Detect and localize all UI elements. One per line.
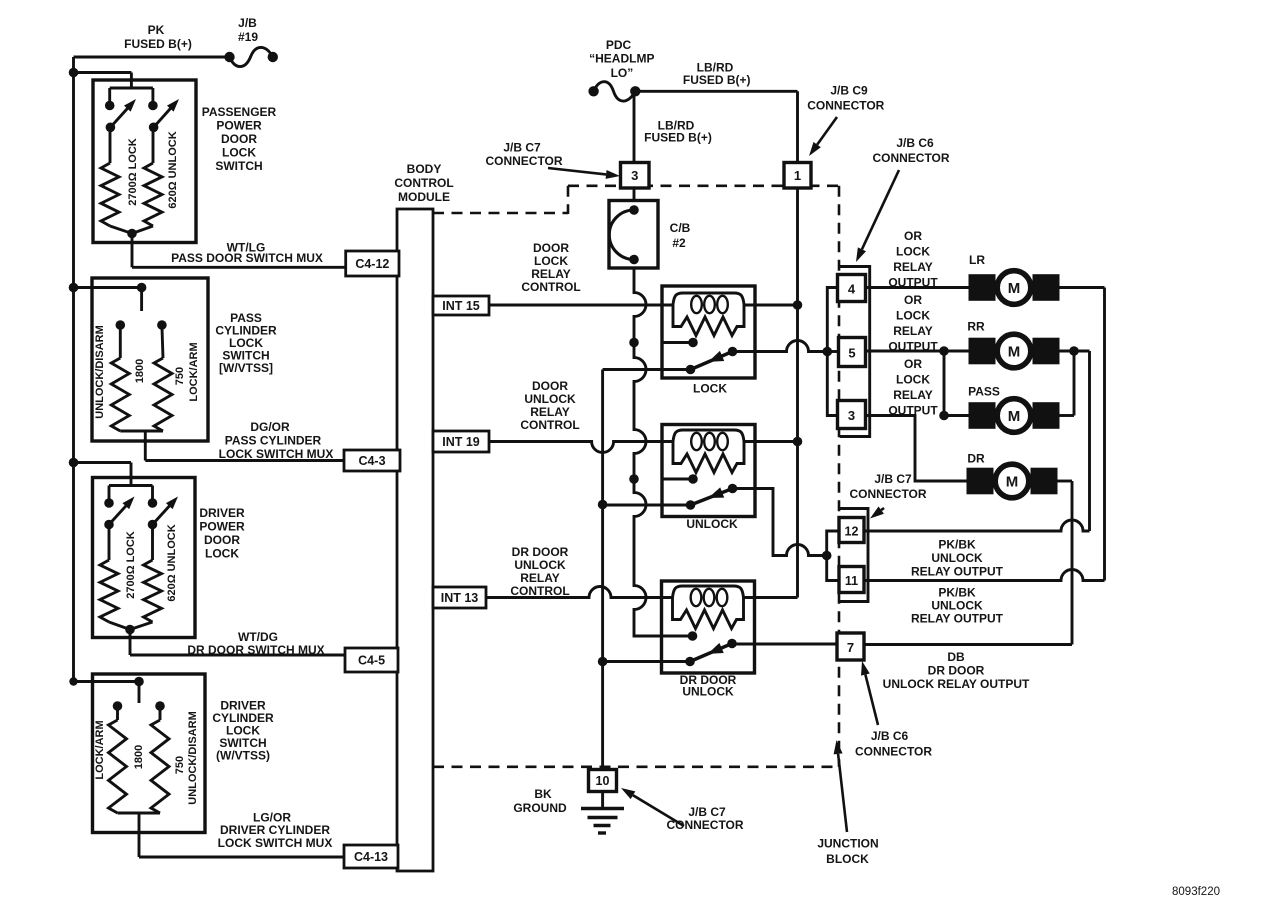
svg-text:INT 19: INT 19 [442,435,480,449]
svg-text:PASS DOOR SWITCH MUX: PASS DOOR SWITCH MUX [171,251,323,265]
svg-text:2700Ω LOCK: 2700Ω LOCK [127,138,139,206]
svg-text:12: 12 [845,525,859,539]
svg-text:CONTROL: CONTROL [520,418,579,432]
svg-text:2700Ω LOCK: 2700Ω LOCK [125,531,137,599]
svg-text:LOCK SWITCH MUX: LOCK SWITCH MUX [218,836,333,850]
svg-text:UNLOCK: UNLOCK [931,599,983,613]
svg-text:“HEADLMP: “HEADLMP [589,51,654,65]
svg-text:DRIVER: DRIVER [199,506,245,520]
svg-text:M: M [1006,474,1019,491]
svg-text:POWER: POWER [199,520,245,534]
svg-text:BLOCK: BLOCK [826,852,869,866]
svg-text:M: M [1008,280,1021,297]
svg-text:RELAY: RELAY [531,267,571,281]
svg-text:(W/VTSS): (W/VTSS) [216,749,270,763]
svg-text:RELAY OUTPUT: RELAY OUTPUT [911,565,1004,579]
svg-text:CONNECTOR: CONNECTOR [849,487,926,501]
svg-text:J/B C7: J/B C7 [688,805,726,819]
svg-text:OR: OR [904,229,922,243]
svg-text:1800: 1800 [134,359,146,383]
svg-text:C4-12: C4-12 [355,257,389,271]
svg-text:#19: #19 [238,30,258,44]
svg-text:CONTROL: CONTROL [394,176,453,190]
svg-text:J/B C6: J/B C6 [896,136,934,150]
svg-text:CONNECTOR: CONNECTOR [807,98,884,112]
svg-text:LOCK: LOCK [205,547,239,561]
svg-text:DR DOOR: DR DOOR [928,664,985,678]
svg-text:LR: LR [969,253,985,267]
svg-text:J/B C7: J/B C7 [503,141,541,155]
svg-text:RR: RR [967,320,985,334]
svg-text:UNLOCK: UNLOCK [514,558,566,572]
svg-text:UNLOCK: UNLOCK [524,392,576,406]
svg-text:JUNCTION: JUNCTION [817,837,878,851]
svg-text:BODY: BODY [407,162,442,176]
svg-text:CONTROL: CONTROL [510,584,569,598]
svg-text:OR: OR [904,293,922,307]
svg-text:C4-5: C4-5 [358,654,385,668]
svg-text:C4-13: C4-13 [354,850,388,864]
svg-text:LOCK: LOCK [896,245,930,259]
svg-text:620Ω UNLOCK: 620Ω UNLOCK [167,131,179,208]
svg-text:CONNECTOR: CONNECTOR [485,154,562,168]
svg-text:1: 1 [794,168,801,183]
svg-text:DB: DB [947,650,965,664]
svg-text:3: 3 [631,168,638,183]
svg-text:M: M [1008,344,1021,361]
svg-text:C/B: C/B [670,221,691,235]
svg-text:750: 750 [174,367,186,385]
svg-text:PK: PK [148,23,165,37]
svg-text:UNLOCK RELAY OUTPUT: UNLOCK RELAY OUTPUT [883,677,1030,691]
svg-text:UNLOCK: UNLOCK [931,551,983,565]
svg-text:620Ω UNLOCK: 620Ω UNLOCK [166,524,178,601]
svg-text:PK/BK: PK/BK [938,586,976,600]
svg-text:PDC: PDC [606,38,632,52]
svg-text:DRIVER CYLINDER: DRIVER CYLINDER [220,823,330,837]
svg-text:PK/BK: PK/BK [938,538,976,552]
svg-text:LOCK: LOCK [693,382,727,396]
svg-text:FUSED B(+): FUSED B(+) [683,73,751,87]
svg-text:C4-3: C4-3 [358,454,385,468]
svg-text:LOCK: LOCK [896,309,930,323]
svg-text:RELAY: RELAY [893,324,933,338]
svg-text:FUSED B(+): FUSED B(+) [124,37,192,51]
svg-text:[W/VTSS]: [W/VTSS] [219,361,273,375]
svg-text:LOCK: LOCK [896,373,930,387]
svg-text:RELAY: RELAY [530,405,570,419]
svg-text:LO”: LO” [611,66,634,80]
svg-text:INT 15: INT 15 [442,299,480,313]
svg-text:#2: #2 [672,236,686,250]
svg-text:DR: DR [967,452,985,466]
svg-text:CONNECTOR: CONNECTOR [666,818,743,832]
svg-text:J/B: J/B [238,16,257,30]
svg-text:M: M [1008,408,1021,425]
svg-text:LOCK SWITCH MUX: LOCK SWITCH MUX [219,447,334,461]
svg-text:RELAY: RELAY [893,260,933,274]
svg-text:GROUND: GROUND [513,801,567,815]
svg-text:RELAY: RELAY [520,571,560,585]
svg-text:OUTPUT: OUTPUT [888,340,938,354]
svg-text:OR: OR [904,357,922,371]
svg-text:10: 10 [596,774,610,788]
svg-text:UNLOCK/DISARM: UNLOCK/DISARM [94,325,106,419]
svg-text:750: 750 [174,756,186,774]
svg-text:UNLOCK: UNLOCK [686,517,738,531]
svg-text:4: 4 [848,282,856,297]
svg-text:1800: 1800 [133,745,145,769]
svg-text:MODULE: MODULE [398,190,450,204]
svg-text:FUSED B(+): FUSED B(+) [644,131,712,145]
svg-text:CONNECTOR: CONNECTOR [872,151,949,165]
svg-text:OUTPUT: OUTPUT [888,404,938,418]
svg-text:LOCK: LOCK [222,146,256,160]
svg-text:8093f220: 8093f220 [1172,886,1220,898]
svg-text:J/B C9: J/B C9 [830,84,868,98]
svg-text:DR DOOR SWITCH MUX: DR DOOR SWITCH MUX [187,643,324,657]
svg-text:PASS CYLINDER: PASS CYLINDER [225,434,322,448]
svg-text:LOCK: LOCK [534,254,568,268]
svg-text:J/B C7: J/B C7 [874,472,912,486]
svg-text:LOCK/ARM: LOCK/ARM [188,342,200,401]
svg-text:DOOR: DOOR [532,379,568,393]
svg-text:3: 3 [848,408,855,423]
svg-text:BK: BK [534,787,552,801]
svg-text:UNLOCK/DISARM: UNLOCK/DISARM [187,711,199,805]
svg-text:5: 5 [848,346,855,361]
svg-text:J/B C6: J/B C6 [871,729,909,743]
svg-text:CONNECTOR: CONNECTOR [855,745,932,759]
svg-text:UNLOCK: UNLOCK [682,685,734,699]
svg-text:OUTPUT: OUTPUT [888,276,938,290]
svg-text:POWER: POWER [216,119,262,133]
svg-text:DOOR: DOOR [221,132,257,146]
svg-text:11: 11 [845,574,858,588]
svg-text:DOOR: DOOR [204,533,240,547]
svg-text:CONTROL: CONTROL [521,280,580,294]
svg-text:7: 7 [847,640,854,655]
svg-text:DR DOOR: DR DOOR [512,545,569,559]
svg-text:DG/OR: DG/OR [250,420,290,434]
svg-text:PASSENGER: PASSENGER [202,105,277,119]
svg-text:RELAY OUTPUT: RELAY OUTPUT [911,612,1004,626]
svg-text:DOOR: DOOR [533,241,569,255]
svg-text:LOCK/ARM: LOCK/ARM [94,720,106,779]
svg-text:INT 13: INT 13 [441,591,479,605]
svg-text:SWITCH: SWITCH [215,159,262,173]
svg-text:PASS: PASS [968,385,1000,399]
svg-text:RELAY: RELAY [893,388,933,402]
svg-text:WT/DG: WT/DG [238,630,278,644]
